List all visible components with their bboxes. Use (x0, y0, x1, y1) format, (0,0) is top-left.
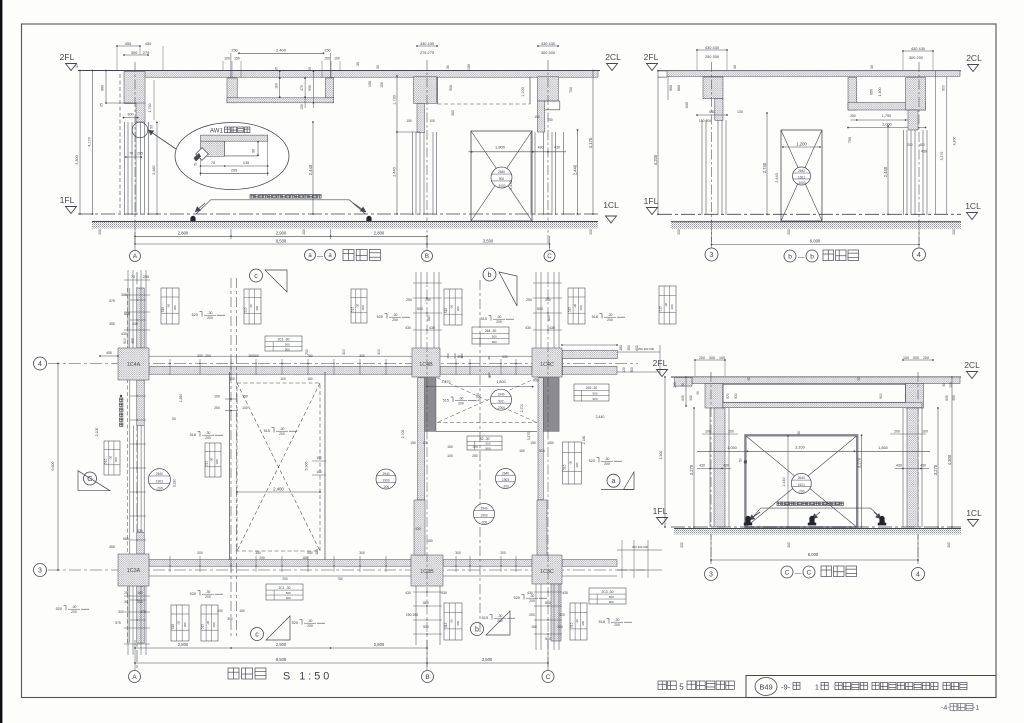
svg-text:1CL: 1CL (603, 200, 619, 210)
svg-text:C: C (807, 569, 812, 576)
section a-a : detail top hatch strip (201, 135, 268, 141)
section c-c : 1CL triangle (968, 520, 979, 527)
svg-text:480: 480 (315, 549, 319, 555)
section b-b : window opening (781, 130, 822, 221)
plan : level mark circle B-C mid (496, 469, 516, 489)
svg-text:150: 150 (519, 449, 525, 453)
section a-a : anchor arrow right (353, 203, 366, 212)
svg-text:30: 30 (356, 62, 360, 66)
plan : callout table top 1 (161, 288, 179, 324)
section a-a : column A head hatch (124, 72, 145, 104)
svg-text:-30: -30 (615, 618, 620, 622)
plan : wall north band east of C (562, 350, 617, 359)
svg-text:200: 200 (307, 624, 313, 628)
plan : service lines below 1C3C (535, 584, 537, 650)
plan : service line ticks below 3A (124, 595, 150, 597)
svg-text:30: 30 (275, 67, 279, 71)
svg-text:900: 900 (879, 393, 883, 399)
section c-c : beam soffit hatch (723, 402, 922, 407)
section b-b : dims above column 4 (903, 50, 933, 52)
svg-text:30: 30 (797, 431, 801, 435)
section a-a : 2FL line (78, 70, 600, 72)
svg-text:150: 150 (427, 539, 433, 543)
section a-a : 1FL level triangle (66, 207, 77, 214)
svg-text:518: 518 (190, 433, 196, 437)
section a-a : detail recess outline (224, 141, 226, 156)
svg-text:8,500: 8,500 (276, 238, 287, 243)
section a-a : view title (305, 250, 316, 261)
svg-text:30: 30 (857, 377, 861, 381)
section c-c : 2FL line (671, 376, 961, 378)
svg-text:4,300: 4,300 (947, 454, 952, 465)
plan : callout table top 6 (659, 286, 676, 324)
plan : wall tick marks grid A (130, 299, 146, 301)
plan : dashed line west of grid A wall (127, 288, 129, 643)
svg-text:250: 250 (850, 114, 856, 118)
plan : wall on grid A upper (137, 288, 144, 348)
svg-text:300: 300 (451, 110, 455, 116)
svg-text:200: 200 (589, 229, 593, 235)
svg-text:900: 900 (449, 85, 453, 91)
section b-b : drop beam hatch bottom (848, 103, 926, 111)
plan : marker c bottom (251, 628, 264, 641)
svg-text:520: 520 (377, 315, 383, 319)
svg-text:6,000: 6,000 (808, 552, 819, 557)
svg-text:-30: -30 (356, 304, 360, 309)
svg-text:50: 50 (739, 458, 743, 462)
svg-text:902: 902 (498, 399, 504, 403)
section a-a : 2CL level triangle (607, 64, 618, 71)
svg-text:2,400: 2,400 (273, 486, 284, 491)
plan : marker c top (250, 269, 263, 282)
svg-text:200: 200 (728, 430, 734, 434)
svg-text:30: 30 (487, 356, 491, 360)
svg-text:2,440: 2,440 (782, 478, 786, 487)
svg-text:-9-: -9- (781, 683, 791, 692)
section a-a : anchor arrow left (195, 203, 205, 212)
plan : wall on grid A mid lower hatch (137, 532, 144, 554)
svg-text:2640: 2640 (498, 170, 505, 174)
plan : big floor opening frame (229, 372, 231, 560)
svg-text:1921: 1921 (798, 175, 805, 179)
svg-text:430: 430 (441, 591, 447, 595)
svg-text:200: 200 (458, 402, 464, 406)
svg-text:250: 250 (231, 49, 237, 53)
svg-text:C: C (546, 674, 551, 681)
svg-text:430: 430 (533, 379, 539, 383)
svg-text:1,850: 1,850 (878, 446, 888, 450)
section a-a : grid A chain line (134, 62, 136, 243)
section b-b : top slab hatch (667, 71, 960, 77)
svg-text:520: 520 (190, 592, 196, 596)
plan : grid bubble C bottom (542, 671, 554, 683)
svg-text:200: 200 (302, 229, 306, 235)
svg-text:-2000: -2000 (497, 406, 505, 410)
section b-b : column 3 hatch (703, 77, 723, 99)
plan : small opening level circle (491, 389, 512, 410)
svg-text:-30: -30 (608, 313, 613, 317)
svg-text:2,180: 2,180 (582, 436, 586, 445)
svg-text:900: 900 (285, 347, 290, 351)
section a-a : grid bubble A (130, 251, 141, 262)
svg-text:30: 30 (747, 377, 751, 381)
plan : small opening dim 1800 (427, 386, 533, 388)
section a-a : drop beam 1 hatch bottom (227, 98, 334, 103)
svg-text:95: 95 (696, 391, 700, 395)
svg-text:300: 300 (457, 355, 463, 359)
svg-text:3: 3 (710, 252, 714, 259)
svg-text:2,440: 2,440 (596, 415, 605, 419)
svg-text:70: 70 (129, 152, 133, 156)
svg-text:105: 105 (429, 119, 435, 123)
section c-c : tank X brace (746, 436, 857, 527)
svg-text:100: 100 (922, 430, 928, 434)
svg-text:200: 200 (529, 613, 535, 617)
section b-b : col3 lower dims (697, 114, 727, 116)
plan : service line ticks below 3B (413, 591, 442, 593)
section b-b : left dim 4200 (657, 71, 659, 215)
svg-text:2940: 2940 (502, 471, 509, 475)
svg-text:-200: -200 (481, 520, 488, 524)
svg-text:430: 430 (137, 529, 143, 533)
svg-text:2640: 2640 (798, 476, 805, 480)
section c-c : dims above right col (903, 359, 933, 361)
svg-text:300: 300 (575, 462, 579, 467)
svg-text:3: 3 (38, 568, 42, 575)
svg-text:1,850: 1,850 (179, 394, 183, 403)
svg-text:30: 30 (124, 600, 128, 604)
plan : marker b top (483, 268, 496, 281)
section c-c : beam top hatch (692, 377, 960, 384)
plan : small opening solid bottom (436, 430, 537, 432)
svg-text:430: 430 (920, 464, 926, 468)
section a-a : drop beam 1 side extension lines (230, 53, 232, 78)
svg-text:2C1 -30: 2C1 -30 (278, 586, 290, 590)
svg-text:150: 150 (410, 441, 416, 445)
svg-text:c: c (254, 273, 258, 280)
svg-text:—: — (798, 254, 805, 261)
section b-b : window level circle (793, 167, 811, 185)
plan : marker b bottom (471, 623, 484, 636)
svg-text:900: 900 (609, 600, 614, 604)
svg-text:30: 30 (942, 383, 946, 387)
section a-a : grid bubble B (422, 251, 433, 262)
svg-text:100: 100 (719, 356, 725, 360)
section c-c : anchor arrows (749, 512, 760, 520)
svg-text:275 275: 275 275 (420, 50, 434, 55)
section c-c : beam right column hatch (906, 384, 924, 409)
section a-a : window dim 1800 (469, 151, 567, 153)
svg-text:900: 900 (952, 395, 956, 401)
svg-text:685: 685 (123, 537, 129, 541)
svg-text:430: 430 (429, 326, 435, 330)
svg-text:A: A (132, 674, 137, 681)
section a-a : dims above column A (117, 45, 140, 47)
section c-c : tank level circle (791, 473, 811, 493)
svg-text:8,500: 8,500 (276, 657, 287, 662)
svg-text:-30: -30 (206, 621, 210, 626)
svg-text:130: 130 (737, 110, 743, 114)
svg-text:1CL: 1CL (966, 508, 982, 518)
section c-c : tank center dim line (787, 435, 789, 528)
plan : wall on grid A lower (137, 586, 144, 643)
svg-text:2,800: 2,800 (374, 642, 385, 647)
svg-text:200: 200 (205, 436, 211, 440)
svg-text:200: 200 (497, 619, 503, 623)
section a-a : window X brace (471, 131, 532, 221)
plan : callout table top 3 (351, 289, 367, 323)
svg-text:1,100: 1,100 (878, 88, 882, 97)
plan : callout table mid right (563, 442, 582, 484)
plan : service line ticks above C (533, 282, 562, 284)
plan : callout table 2C1 bottom (266, 584, 303, 600)
plan : grid line 3 (48, 569, 645, 571)
svg-text:30: 30 (681, 383, 685, 387)
plan : wall A window lines (133, 425, 135, 532)
svg-text:685: 685 (124, 312, 130, 316)
svg-text:1,100: 1,100 (521, 87, 525, 97)
plan : service lines above 1C4A (127, 270, 129, 348)
section c-c : grid bubble 3 (705, 568, 718, 581)
plan : level mark circle lower (474, 504, 495, 525)
svg-text:860: 860 (547, 315, 551, 321)
svg-text:700: 700 (569, 87, 573, 93)
svg-text:100: 100 (229, 377, 235, 381)
svg-text:3,270: 3,270 (527, 432, 531, 441)
svg-text:-30: -30 (605, 457, 610, 461)
svg-text:3,270: 3,270 (940, 152, 944, 161)
section b-b : drop beam hatch left (848, 78, 857, 111)
svg-text:500: 500 (537, 307, 543, 311)
svg-text:1,730: 1,730 (393, 95, 397, 105)
svg-text:B49: B49 (759, 683, 772, 692)
svg-text:400: 400 (919, 143, 925, 147)
svg-text:200: 200 (949, 382, 953, 388)
svg-text:2,440: 2,440 (509, 180, 513, 190)
plan : level mark circle near A mid (148, 469, 170, 491)
section b-b : window dim 1200 (783, 146, 820, 148)
svg-text:500: 500 (609, 595, 614, 599)
section b-b : grid bubble 3 (705, 248, 718, 261)
section a-a : window level circle (491, 167, 512, 188)
section a-a : col B dim line 1730 2440 (396, 76, 398, 214)
svg-text:200: 200 (197, 551, 203, 555)
section b-b : column 3 lines (701, 120, 703, 215)
section a-a : bottom dim row 2 (135, 243, 427, 245)
svg-text:-200: -200 (798, 489, 805, 493)
svg-text:100: 100 (447, 454, 453, 458)
svg-text:455: 455 (109, 322, 115, 326)
svg-text:300: 300 (581, 621, 585, 626)
svg-text:150: 150 (548, 441, 554, 445)
svg-text:515: 515 (104, 459, 108, 465)
section a-a : window opening W frame (471, 131, 532, 221)
section b-b : right dim 2440 (887, 126, 889, 214)
section a-a : bottom dim 3500 (427, 243, 550, 245)
section b-b : column 4 hatch (906, 78, 926, 111)
section b-b : grid 3 chain line (711, 62, 713, 242)
section a-a : ground hatch band (92, 222, 598, 229)
svg-text:135: 135 (243, 161, 249, 165)
svg-text:250 300 600: 250 300 600 (638, 347, 654, 351)
svg-text:250: 250 (526, 298, 532, 302)
plan : callout table bottom 2 (201, 605, 218, 641)
svg-text:350: 350 (255, 551, 261, 555)
section c-c : dim 3270 right of tank (861, 435, 863, 527)
section c-c : west end beam hatch (675, 377, 692, 386)
plan : section cut line b (479, 280, 481, 632)
svg-text:1903: 1903 (382, 479, 389, 483)
svg-text:2,800: 2,800 (374, 230, 385, 235)
svg-text:100: 100 (316, 470, 322, 474)
svg-text:150: 150 (380, 82, 384, 88)
svg-text:515: 515 (444, 622, 448, 628)
section b-b : window X (781, 130, 822, 221)
plan : big floor opening dashed rect (237, 383, 320, 551)
svg-text:2FL: 2FL (644, 52, 659, 62)
svg-text:2640: 2640 (156, 472, 163, 476)
svg-text:5,300: 5,300 (305, 462, 309, 471)
svg-text:1,050: 1,050 (727, 446, 737, 450)
svg-text:200: 200 (947, 542, 951, 548)
svg-text:-30: -30 (497, 315, 502, 319)
plan : grid bubble B bottom (422, 671, 434, 683)
section c-c : left column lines (709, 408, 711, 527)
svg-text:100 200: 100 200 (699, 119, 711, 123)
plan : small opening dashed bottom (437, 422, 537, 424)
svg-text:50: 50 (150, 125, 154, 129)
svg-text:300: 300 (359, 354, 365, 358)
svg-text:305: 305 (137, 600, 143, 604)
svg-text:500: 500 (492, 335, 497, 339)
svg-text:30: 30 (308, 67, 312, 71)
svg-text:4,300: 4,300 (75, 155, 79, 165)
svg-text:150: 150 (447, 445, 453, 449)
section a-a : detail dims (201, 165, 268, 167)
svg-text:750: 750 (307, 354, 313, 358)
section c-c : beam recess outline (723, 384, 906, 402)
plan : grid bubble A bottom (129, 671, 141, 683)
svg-text:550: 550 (307, 551, 313, 555)
plan : service line ticks above B (413, 282, 442, 284)
plan : column 1C4B (412, 348, 440, 377)
svg-text:90: 90 (252, 149, 256, 153)
section a-a : column C recess step (545, 101, 560, 110)
plan : big opening dim 2400 (237, 491, 320, 493)
svg-text:100: 100 (242, 406, 248, 410)
svg-text:B: B (425, 674, 429, 681)
svg-text:630: 630 (945, 395, 949, 401)
section a-a : mid dim 2440 left (312, 122, 314, 214)
svg-text:500: 500 (286, 591, 291, 595)
svg-text:1,790: 1,790 (476, 393, 480, 402)
svg-text:4: 4 (917, 252, 921, 259)
title block : left text (658, 681, 667, 690)
plan : service lines below 1C3A (127, 586, 129, 655)
svg-text:200: 200 (699, 356, 705, 360)
svg-text:250: 250 (214, 406, 220, 410)
svg-text:900: 900 (308, 85, 312, 91)
svg-text:515: 515 (244, 307, 248, 313)
svg-text:2CL: 2CL (966, 53, 982, 63)
svg-text:205: 205 (143, 275, 149, 279)
svg-text:300: 300 (559, 613, 565, 617)
svg-text:630: 630 (685, 102, 689, 108)
svg-text:-30: -30 (459, 397, 464, 401)
svg-text:2CL: 2CL (964, 360, 980, 370)
svg-text:-30: -30 (208, 311, 213, 315)
svg-text:430 430: 430 430 (705, 45, 720, 50)
svg-text:300: 300 (913, 356, 919, 360)
svg-text:25: 25 (100, 103, 104, 107)
plan : grid B chain in plan (426, 272, 428, 670)
svg-text:300: 300 (456, 306, 460, 311)
svg-text:900: 900 (492, 340, 497, 344)
plan : callout table 264 (472, 327, 509, 344)
svg-text:100: 100 (224, 57, 230, 61)
scan edge black strip (0, 0, 2, 723)
plan : east extension lines grid 4 (617, 351, 660, 353)
plan : wall tick marks grid 3 (169, 556, 171, 572)
svg-text:100: 100 (903, 356, 909, 360)
section a-a : dims above column B (417, 45, 437, 47)
svg-text:300 200: 300 200 (909, 55, 924, 60)
section b-b : column 4 lines (903, 130, 905, 215)
svg-text:1CL: 1CL (965, 201, 981, 211)
plan : wall on grid 4 segment B-C (440, 366, 532, 374)
svg-text:2,900: 2,900 (276, 642, 287, 647)
svg-text:200: 200 (487, 372, 491, 377)
svg-text:-30: -30 (210, 458, 214, 463)
svg-text:200: 200 (614, 623, 620, 627)
svg-text:1FL: 1FL (644, 196, 659, 206)
svg-text:3,270: 3,270 (689, 464, 694, 475)
section c-c : tank outline (745, 435, 857, 527)
svg-text:300: 300 (255, 305, 259, 310)
svg-text:4: 4 (38, 361, 42, 368)
svg-text:450: 450 (446, 353, 450, 358)
section a-a : right dim 4170 (592, 71, 594, 215)
plan : column 1C3C (532, 555, 562, 584)
svg-text:2,440: 2,440 (775, 173, 779, 183)
section a-a : drop beam 1 interior dim lines (279, 71, 281, 97)
svg-text:4,200: 4,200 (953, 137, 957, 146)
svg-text:200: 200 (392, 318, 398, 322)
svg-text:300: 300 (212, 622, 216, 627)
section c-c : right span dims (937, 408, 939, 527)
svg-text:750: 750 (547, 118, 553, 122)
svg-text:910: 910 (123, 338, 127, 344)
plan : wall below 1C3C (551, 584, 561, 641)
svg-text:4,200: 4,200 (653, 154, 658, 165)
svg-text:-30: -30 (573, 304, 577, 309)
section b-b : 1FL triangle (647, 208, 658, 215)
svg-text:900: 900 (592, 397, 597, 401)
plan : wall on grid 4 segment A-B (149, 366, 412, 374)
svg-text:900: 900 (485, 446, 490, 450)
plan : callout table mid left (104, 441, 120, 475)
plan : wall on grid 3 segment A-B (149, 560, 411, 567)
svg-text:200: 200 (680, 542, 684, 548)
svg-text:2,740: 2,740 (762, 162, 767, 173)
plan : marker a right (607, 474, 620, 487)
svg-text:-2000: -2000 (797, 181, 805, 185)
svg-text:180: 180 (307, 377, 313, 381)
plan : shear wall below 1C4B dark (425, 378, 436, 432)
svg-text:430: 430 (699, 464, 705, 468)
svg-text:515: 515 (171, 624, 175, 630)
svg-text:-200: -200 (156, 487, 163, 491)
